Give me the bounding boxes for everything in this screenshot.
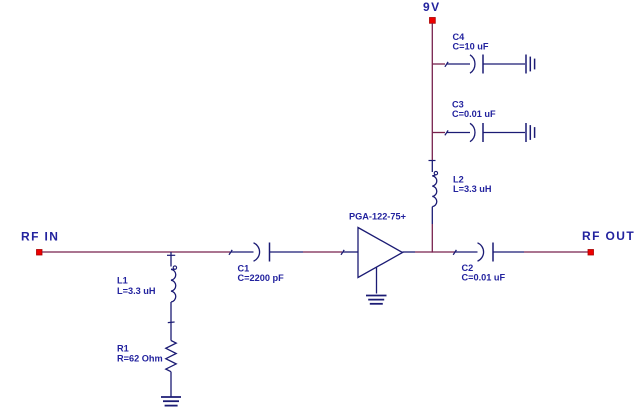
ground GND2 below U1 — [366, 296, 387, 304]
svg-text:9V: 9V — [423, 0, 440, 14]
svg-text:R=62 Ohm: R=62 Ohm — [117, 354, 163, 364]
ground GND3 right of C4 (sideways) — [526, 55, 535, 74]
resistor R1 — [166, 322, 176, 396]
svg-text:L=3.3 uH: L=3.3 uH — [453, 184, 492, 194]
svg-text:C1: C1 — [238, 264, 250, 274]
svg-text:RF OUT: RF OUT — [582, 229, 635, 243]
inductor L2 — [429, 161, 438, 225]
capacitor C1 — [229, 243, 303, 262]
svg-text:R1: R1 — [117, 343, 129, 353]
svg-text:C3: C3 — [452, 100, 464, 110]
terminal 9V — [430, 18, 436, 24]
svg-text:C=10 uF: C=10 uF — [453, 42, 489, 52]
op-amp U1 PGA-122-75+ — [341, 228, 415, 278]
svg-text:C2: C2 — [462, 263, 474, 273]
terminal RF OUT — [588, 250, 594, 256]
svg-text:RF IN: RF IN — [21, 230, 59, 244]
node junction main line / L1 — [167, 254, 175, 256]
ground stub under U1 — [376, 267, 378, 293]
capacitor C2 — [453, 243, 524, 262]
wire stub node to C3 pin1 — [432, 132, 445, 134]
wire C1 pin2 to U1 input — [303, 251, 342, 253]
pin tick L1/R1 — [168, 321, 175, 324]
wire C2 pin2 to RF OUT — [524, 251, 588, 253]
wire U1 output to node / C2 pin1 — [415, 251, 455, 253]
ground GND1 below R1 — [161, 397, 181, 406]
capacitor C3 — [445, 123, 525, 142]
wire L2 pin2 to output node — [431, 224, 433, 253]
svg-text:C=0.01 uF: C=0.01 uF — [462, 272, 506, 282]
svg-text:L1: L1 — [117, 276, 128, 286]
svg-text:C=0.01 uF: C=0.01 uF — [452, 109, 496, 119]
terminal RF IN — [37, 250, 43, 256]
wire stub node to C4 pin1 — [432, 63, 445, 65]
wire RF IN to C1 pin1 — [42, 251, 230, 253]
wire 9V net vertical to L2 pin1 — [431, 23, 433, 160]
capacitor C4 — [445, 55, 525, 74]
svg-text:L=3.3 uH: L=3.3 uH — [117, 286, 156, 296]
svg-text:C=2200 pF: C=2200 pF — [238, 273, 285, 283]
inductor L1 — [171, 252, 177, 322]
svg-text:PGA-122-75+: PGA-122-75+ — [349, 212, 406, 222]
svg-text:C4: C4 — [453, 32, 466, 42]
ground GND4 right of C3 (sideways) — [526, 123, 535, 142]
